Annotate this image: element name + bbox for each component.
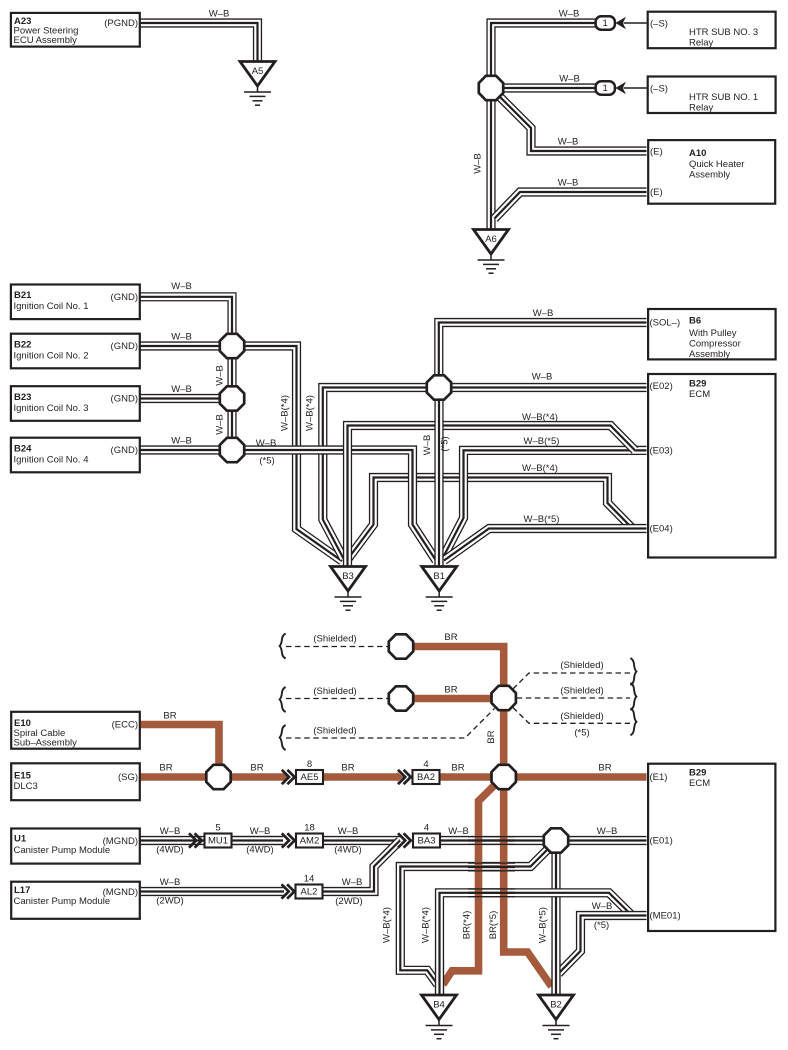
label (2WD) L17 wire xyxy=(156,896,183,907)
svg-text:HTR SUB NO. 1: HTR SUB NO. 1 xyxy=(689,92,758,103)
label W-B(*5) B2 riser xyxy=(538,907,549,943)
svg-text:W–B: W–B xyxy=(559,9,580,20)
junction octagon J2 xyxy=(220,386,244,410)
junction octagon J9 shielded row1 xyxy=(389,634,413,658)
dashed shielded wire right row1 from octagon J8 xyxy=(513,673,630,689)
wire W-B(*5) ECM ME01 to ground B2 xyxy=(559,916,647,974)
connector MU1 pin 5 xyxy=(205,822,232,847)
svg-text:Assembly: Assembly xyxy=(689,349,730,360)
label W-B B21 wire xyxy=(171,281,192,292)
svg-text:(GND): (GND) xyxy=(111,445,138,456)
svg-text:W–B(*5): W–B(*5) xyxy=(524,514,560,525)
label HTR SUB NO. 3 xyxy=(689,27,758,38)
svg-text:W–B: W–B xyxy=(160,826,181,837)
svg-text:ECU Assembly: ECU Assembly xyxy=(14,35,78,46)
label W-B E01 wire xyxy=(597,826,618,837)
box E15 DLC3 xyxy=(11,763,140,800)
box L17 Canister Pump Module xyxy=(11,882,140,919)
svg-text:(–S): (–S) xyxy=(650,19,668,30)
svg-text:B22: B22 xyxy=(14,339,31,350)
svg-text:(*5): (*5) xyxy=(594,920,609,931)
wire W-B BA3 to octagon J6 xyxy=(440,836,544,845)
wire W-B octagon JA to HTR SUB NO.1 relay xyxy=(503,83,596,92)
wire W-B(*4) octagon J1 to ground B3 xyxy=(245,346,342,561)
svg-text:(2WD): (2WD) xyxy=(156,896,183,907)
svg-text:Canister Pump Module: Canister Pump Module xyxy=(14,845,111,856)
wire W-B octagon J4 to ECM E02 xyxy=(452,383,647,392)
label Ignition Coil No. 4 xyxy=(14,455,89,466)
box B29 ECM bottom xyxy=(648,764,775,931)
wire W-B B22 GND to octagon J1 xyxy=(140,341,220,350)
label W-B(*4) B4 center riser xyxy=(421,907,432,943)
label W-B heater lower wire xyxy=(558,178,579,189)
ground B2 xyxy=(539,995,574,1039)
brown BR AE5 to BA2 xyxy=(323,773,398,781)
pin -S relay 3 xyxy=(650,19,668,30)
pin E01 xyxy=(650,836,673,847)
brown BR E10 ECC to octagon J5 xyxy=(140,725,219,765)
ground A6 xyxy=(474,230,509,274)
label (4WD) U1 wire xyxy=(156,845,183,856)
label Quick Heater xyxy=(689,159,744,170)
svg-text:Quick Heater: Quick Heater xyxy=(689,159,744,170)
svg-text:B21: B21 xyxy=(14,290,32,301)
wire W-B trunk octagon J4 to ground B1 xyxy=(434,401,443,568)
brown wire tip at AE5 chevron xyxy=(283,772,289,782)
svg-text:B2: B2 xyxy=(550,999,562,1010)
brown BR(*5) octagon J7 to ground B2 xyxy=(504,790,552,987)
label E15 xyxy=(14,771,32,782)
svg-text:Relay: Relay xyxy=(689,103,714,114)
label shielded right row1 xyxy=(560,660,603,671)
pin E1 xyxy=(650,772,668,783)
svg-text:B23: B23 xyxy=(14,392,31,403)
label BR row1 xyxy=(444,632,457,643)
label Power Steering xyxy=(14,26,79,37)
wire W-B(*5) ECM E04 to ground B1 xyxy=(444,529,647,561)
label Relay 3 xyxy=(689,38,714,49)
label ECM bottom xyxy=(689,778,710,789)
svg-text:W–B(*5): W–B(*5) xyxy=(524,436,560,447)
junction octagon J5 xyxy=(206,765,230,789)
pin E03 xyxy=(650,446,673,457)
label W-B J3 right xyxy=(256,438,277,449)
svg-text:B1: B1 xyxy=(433,571,445,582)
svg-text:(GND): (GND) xyxy=(111,292,138,303)
svg-text:B4: B4 xyxy=(433,999,445,1010)
ground B1 xyxy=(422,567,457,611)
label W-B(*4) E03 wire xyxy=(522,412,558,423)
svg-text:W–B: W–B xyxy=(473,153,484,174)
label (*5) ME01 wire xyxy=(594,920,609,931)
label shielded left row2 xyxy=(313,686,356,697)
svg-text:(MGND): (MGND) xyxy=(103,887,138,898)
pin -S relay 1 xyxy=(650,84,668,95)
dashed shielded wire right row2 from octagon J8 xyxy=(517,697,630,699)
svg-text:W–B: W–B xyxy=(250,826,271,837)
box B24 Ignition Coil No.4 xyxy=(11,438,140,473)
svg-text:W–B: W–B xyxy=(422,435,433,456)
label W-B(*4) E04 wire xyxy=(522,463,558,474)
svg-text:(*5): (*5) xyxy=(574,728,589,739)
svg-text:AM2: AM2 xyxy=(300,836,320,847)
brown BR octagon J7 to ECM E1 xyxy=(517,773,647,781)
label W-B ME01 wire xyxy=(592,901,613,912)
brace left row2 xyxy=(280,687,286,712)
label W-B L17 wire xyxy=(160,877,181,888)
pin GND B23 xyxy=(111,394,138,405)
brown BR trunk octagon J8 to J7 xyxy=(500,711,508,765)
label BR E10 wire xyxy=(163,711,176,722)
label BR E15 wire xyxy=(159,763,172,774)
label Assembly B6 xyxy=(689,349,730,360)
svg-text:B29: B29 xyxy=(689,379,706,390)
wire crossing patch U1 row over browns xyxy=(468,837,515,845)
connector AL2 pin 14 xyxy=(296,873,323,898)
label Ignition Coil No. 3 xyxy=(14,403,89,414)
label shielded right row2 xyxy=(560,686,603,697)
label ECM middle xyxy=(689,389,710,400)
svg-text:BR: BR xyxy=(444,685,457,696)
svg-text:BR(*4): BR(*4) xyxy=(462,911,473,940)
brown BR shielded row1 to octagon J8 xyxy=(414,647,504,686)
junction octagon J8 xyxy=(492,686,516,710)
inline connector chevron before BA3 xyxy=(398,833,411,847)
label B22 xyxy=(14,339,31,350)
svg-text:MU1: MU1 xyxy=(208,836,228,847)
label Spiral Cable xyxy=(14,728,66,739)
inline connector chevron before BA2 xyxy=(398,770,411,784)
label W-B heater upper wire xyxy=(558,137,579,148)
svg-text:BR: BR xyxy=(444,632,457,643)
label DLC3 xyxy=(14,781,38,792)
wire W-B trunk branch to quick heater lower E xyxy=(495,192,647,219)
inline connector chevron before MU1 xyxy=(189,833,202,847)
brown BR(*4) octagon J7 to ground B4 xyxy=(443,785,495,984)
wire W-B trunk octagon J1 to J2 xyxy=(227,359,236,386)
svg-text:A10: A10 xyxy=(689,148,706,159)
label W-B trunk J1-J2 xyxy=(215,365,226,386)
junction octagon J4 xyxy=(427,375,451,399)
label (*5) J4 trunk xyxy=(440,436,451,451)
svg-text:Ignition Coil No. 1: Ignition Coil No. 1 xyxy=(14,301,89,312)
label U1 xyxy=(14,834,27,845)
label E10 xyxy=(14,718,31,729)
svg-text:U1: U1 xyxy=(14,834,27,845)
junction octagon J6 xyxy=(544,828,568,852)
ground B3 xyxy=(331,567,366,611)
label L17 xyxy=(14,885,30,896)
svg-text:18: 18 xyxy=(304,822,315,833)
svg-text:B29: B29 xyxy=(689,768,706,779)
wire W-B A23 PGND to ground A5 xyxy=(140,23,258,62)
label B23 xyxy=(14,392,31,403)
wire W-B B23 GND to octagon J2 xyxy=(140,394,220,403)
label Relay 1 xyxy=(689,103,714,114)
svg-text:(4WD): (4WD) xyxy=(334,845,361,856)
wire W-B L17 MGND to AL2 xyxy=(140,887,284,896)
svg-text:W–B: W–B xyxy=(533,308,554,319)
svg-text:(Shielded): (Shielded) xyxy=(313,726,356,737)
svg-text:(E02): (E02) xyxy=(650,381,673,392)
svg-text:(ECC): (ECC) xyxy=(112,720,138,731)
pin GND B24 xyxy=(111,445,138,456)
svg-text:(Shielded): (Shielded) xyxy=(560,686,603,697)
label W-B U1 wire xyxy=(160,826,181,837)
svg-text:(E04): (E04) xyxy=(650,524,673,535)
junction octagon J3 xyxy=(220,438,244,462)
label W-B(*4) left riser 1 xyxy=(280,395,291,431)
wire W-B(*4) ECM E03 branch via ground B3 xyxy=(348,426,636,568)
label shielded left row3 xyxy=(313,726,356,737)
label A10 xyxy=(689,148,706,159)
wire W-B AM2 to BA3 xyxy=(323,836,400,845)
wire W-B(*5) octagon J3 to ground B1 xyxy=(245,450,436,561)
wire W-B trunk octagon J2 to J3 xyxy=(227,412,236,438)
label W-B B24 wire xyxy=(171,436,192,447)
wire W-B octagon J6 to ECM E01 xyxy=(568,836,647,845)
pin MGND U1 xyxy=(103,836,138,847)
pin GND B22 xyxy=(111,341,138,352)
label BR trunk J8-J7 xyxy=(486,730,497,743)
dashed shielded wire right row3 from octagon J8 xyxy=(513,708,630,724)
label BR J5-AE5 wire xyxy=(250,763,263,774)
svg-text:W–B: W–B xyxy=(597,826,618,837)
ground A5 xyxy=(240,62,275,106)
svg-text:1: 1 xyxy=(603,83,608,94)
svg-text:W–B(*4): W–B(*4) xyxy=(522,412,558,423)
svg-text:(GND): (GND) xyxy=(111,341,138,352)
svg-text:1: 1 xyxy=(603,18,608,29)
connector BA2 pin 4 xyxy=(413,759,440,784)
svg-text:W–B: W–B xyxy=(209,9,230,20)
svg-text:AE5: AE5 xyxy=(301,772,319,783)
wire W-B trunk octagon JA to ground A6 xyxy=(486,100,495,230)
svg-text:W–B: W–B xyxy=(448,826,469,837)
svg-text:AL2: AL2 xyxy=(301,887,318,898)
svg-text:(2WD): (2WD) xyxy=(335,896,362,907)
brace right row2 xyxy=(630,683,636,710)
svg-text:W–B: W–B xyxy=(532,372,553,383)
dashed shielded wire left row2 xyxy=(286,698,388,700)
svg-text:W–B: W–B xyxy=(558,178,579,189)
svg-text:(SOL–): (SOL–) xyxy=(650,318,681,329)
wire W-B(*5) octagon J6 to ground B2 xyxy=(551,854,560,995)
label W-B AM2-BA3 wire xyxy=(338,826,359,837)
inline connector chevron before AL2 xyxy=(282,884,295,898)
brace left row1 xyxy=(280,634,286,659)
label shielded left row1 xyxy=(313,634,356,645)
brown BR BA2 to octagon J7 xyxy=(439,773,491,781)
inline connector chevron before AM2 xyxy=(282,833,295,847)
label (4WD) AM2-BA3 wire xyxy=(334,845,361,856)
svg-text:W–B: W–B xyxy=(171,384,192,395)
label Sub-Assembly xyxy=(14,737,78,748)
svg-text:(4WD): (4WD) xyxy=(246,845,273,856)
svg-text:BA2: BA2 xyxy=(417,772,435,783)
svg-text:(*5): (*5) xyxy=(440,436,451,451)
svg-text:BR(*5): BR(*5) xyxy=(488,911,499,940)
svg-text:(Shielded): (Shielded) xyxy=(560,711,603,722)
label W-B relay3 wire xyxy=(559,9,580,20)
box HTR SUB NO.1 Relay xyxy=(648,77,776,114)
svg-text:(Shielded): (Shielded) xyxy=(313,634,356,645)
svg-text:BR: BR xyxy=(486,730,497,743)
label W-B(*4) B4 left riser xyxy=(382,907,393,943)
label B29 middle xyxy=(689,379,706,390)
svg-text:HTR SUB NO. 3: HTR SUB NO. 3 xyxy=(689,27,758,38)
svg-text:B24: B24 xyxy=(14,443,32,454)
svg-text:(4WD): (4WD) xyxy=(156,845,183,856)
svg-text:(ME01): (ME01) xyxy=(650,911,681,922)
label shielded right row3 xyxy=(560,711,603,722)
pin E04 xyxy=(650,524,673,535)
svg-text:W–B(*5): W–B(*5) xyxy=(538,907,549,943)
svg-text:Relay: Relay xyxy=(689,38,714,49)
svg-text:ECM: ECM xyxy=(689,389,710,400)
label BR(*5) riser xyxy=(488,911,499,940)
svg-text:W–B(*4): W–B(*4) xyxy=(280,395,291,431)
svg-text:(GND): (GND) xyxy=(111,394,138,405)
svg-text:W–B(*4): W–B(*4) xyxy=(421,907,432,943)
connector BA3 pin 4 xyxy=(413,822,440,847)
svg-text:A6: A6 xyxy=(485,234,497,245)
svg-text:W–B: W–B xyxy=(559,74,580,85)
label A23 xyxy=(14,16,31,27)
pin SOL- xyxy=(650,318,681,329)
label Assembly A10 xyxy=(689,170,730,181)
brace right row3 xyxy=(630,708,636,735)
ground B4 xyxy=(422,995,457,1039)
svg-text:Assembly: Assembly xyxy=(689,170,730,181)
svg-text:ECM: ECM xyxy=(689,778,710,789)
svg-text:8: 8 xyxy=(307,759,312,770)
svg-text:W–B(*4): W–B(*4) xyxy=(382,907,393,943)
svg-text:BR: BR xyxy=(250,763,263,774)
box A10 Quick Heater Assembly xyxy=(648,140,775,204)
pin E02 xyxy=(650,381,673,392)
svg-text:Ignition Coil No. 3: Ignition Coil No. 3 xyxy=(14,403,89,414)
brown BR shielded row2 octagon J10 to J8 xyxy=(414,695,491,703)
label Canister Pump Module L17 xyxy=(14,896,111,907)
wire W-B B24 GND to octagon J3 xyxy=(140,445,220,454)
wire W-B(*5) ECM E03 to ground B1 xyxy=(442,450,647,559)
svg-text:Compressor: Compressor xyxy=(689,339,741,350)
svg-text:(*5): (*5) xyxy=(259,456,274,467)
label W-B J4 trunk xyxy=(422,435,433,456)
dashed shielded wire left row1 xyxy=(286,646,388,648)
svg-text:W–B: W–B xyxy=(215,365,226,386)
dashed shielded wire left row3 to octagon J8 xyxy=(286,709,495,739)
junction octagon J10 shielded row2 xyxy=(389,686,413,710)
label BR E1 wire xyxy=(598,763,611,774)
label W-B(*4) left riser 2 xyxy=(305,395,316,431)
pin ME01 xyxy=(650,911,681,922)
pin PGND xyxy=(104,18,138,29)
label W-B(*5) E04 wire xyxy=(524,514,560,525)
connector AE5 pin 8 xyxy=(296,759,323,784)
box B6 With Pulley Compressor Assembly xyxy=(648,309,776,359)
wire W-B ground B4 riser over brown xyxy=(435,960,444,995)
connector 1 to HTR SUB NO.3 xyxy=(596,16,647,29)
label W-B trunk J2-J3 xyxy=(215,414,226,435)
label (2WD) AL2 wire xyxy=(335,896,362,907)
junction octagon JA xyxy=(479,76,503,100)
svg-text:(MGND): (MGND) xyxy=(103,836,138,847)
box A23 Power Steering ECU Assembly xyxy=(11,13,140,47)
svg-text:Ignition Coil No. 2: Ignition Coil No. 2 xyxy=(14,351,89,362)
svg-text:W–B: W–B xyxy=(338,826,359,837)
svg-text:W–B: W–B xyxy=(592,901,613,912)
label W-B trunk A6 xyxy=(473,153,484,174)
svg-text:BR: BR xyxy=(163,711,176,722)
svg-text:BR: BR xyxy=(451,763,464,774)
junction octagon J1 xyxy=(220,334,244,358)
wire W-B(*4) octagon J4 to ground B3 xyxy=(323,388,426,559)
label B6 xyxy=(689,316,701,327)
label W-B A23 wire xyxy=(209,9,230,20)
label W-B E02 wire xyxy=(532,372,553,383)
svg-text:Sub–Assembly: Sub–Assembly xyxy=(14,737,78,748)
box B23 Ignition Coil No.3 xyxy=(11,386,140,421)
brace right row1 xyxy=(630,658,636,685)
pin E upper xyxy=(650,147,663,158)
wire W-B U1 MGND to MU1 xyxy=(140,836,283,845)
wire W-B(*4) ground B4 to ECM ME01 xyxy=(440,893,633,995)
svg-text:BR: BR xyxy=(159,763,172,774)
svg-text:(PGND): (PGND) xyxy=(104,18,138,29)
svg-text:4: 4 xyxy=(424,822,429,833)
svg-text:W–B: W–B xyxy=(171,281,192,292)
svg-text:W–B: W–B xyxy=(215,414,226,435)
connector AM2 pin 18 xyxy=(296,822,323,847)
wire W-B MU1 to AM2 xyxy=(232,836,283,845)
svg-text:BA3: BA3 xyxy=(418,836,436,847)
wire W-B octagon JA to HTR SUB NO.3 relay xyxy=(491,23,596,76)
svg-text:W–B: W–B xyxy=(256,438,277,449)
label W-B BA3-J6 wire xyxy=(448,826,469,837)
box B22 Ignition Coil No.2 xyxy=(11,334,140,369)
svg-text:Canister Pump Module: Canister Pump Module xyxy=(14,896,111,907)
svg-text:(E01): (E01) xyxy=(650,836,673,847)
svg-text:BR: BR xyxy=(341,763,354,774)
svg-text:(E1): (E1) xyxy=(650,772,668,783)
box HTR SUB NO.3 Relay xyxy=(648,12,776,49)
label With Pulley xyxy=(689,328,737,339)
label Ignition Coil No. 2 xyxy=(14,351,89,362)
label W-B(*5) E03 wire xyxy=(524,436,560,447)
box E10 Spiral Cable Sub-Assembly xyxy=(11,712,140,749)
wire W-B ground B2 riser over brown xyxy=(551,960,560,995)
label HTR SUB NO. 1 xyxy=(689,92,758,103)
brown BR octagon J5 to AE5 xyxy=(231,773,284,781)
label W-B AL2 wire xyxy=(342,877,363,888)
label Compressor xyxy=(689,339,741,350)
svg-text:W–B: W–B xyxy=(342,877,363,888)
label BR(*4) riser xyxy=(462,911,473,940)
svg-text:(Shielded): (Shielded) xyxy=(560,660,603,671)
svg-text:(Shielded): (Shielded) xyxy=(313,686,356,697)
svg-text:W–B: W–B xyxy=(171,332,192,343)
svg-text:4: 4 xyxy=(423,759,428,770)
label ECU Assembly xyxy=(14,35,78,46)
svg-text:W–B: W–B xyxy=(160,877,181,888)
svg-text:DLC3: DLC3 xyxy=(14,781,38,792)
box B29 ECM middle xyxy=(648,374,775,558)
svg-text:A5: A5 xyxy=(252,66,264,77)
wire W-B B21 GND to octagon J1 xyxy=(140,297,232,334)
wire W-B(*4) ECM E04 branch via ground B3 xyxy=(348,478,632,560)
